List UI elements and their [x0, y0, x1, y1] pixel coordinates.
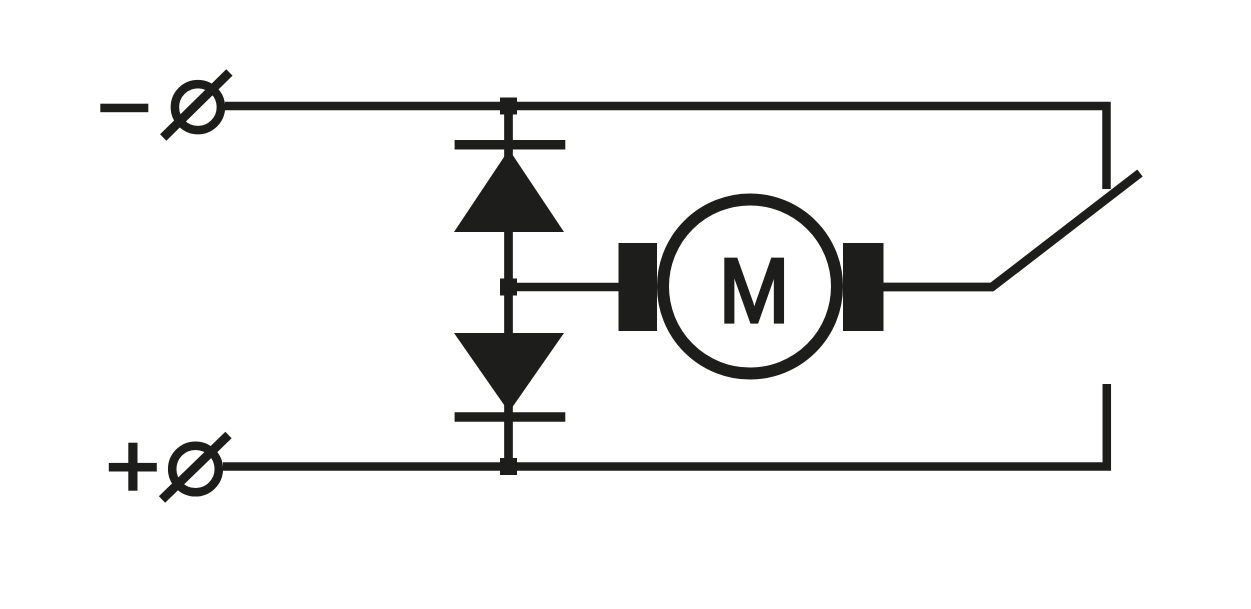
svg-text:M: M — [719, 239, 790, 341]
